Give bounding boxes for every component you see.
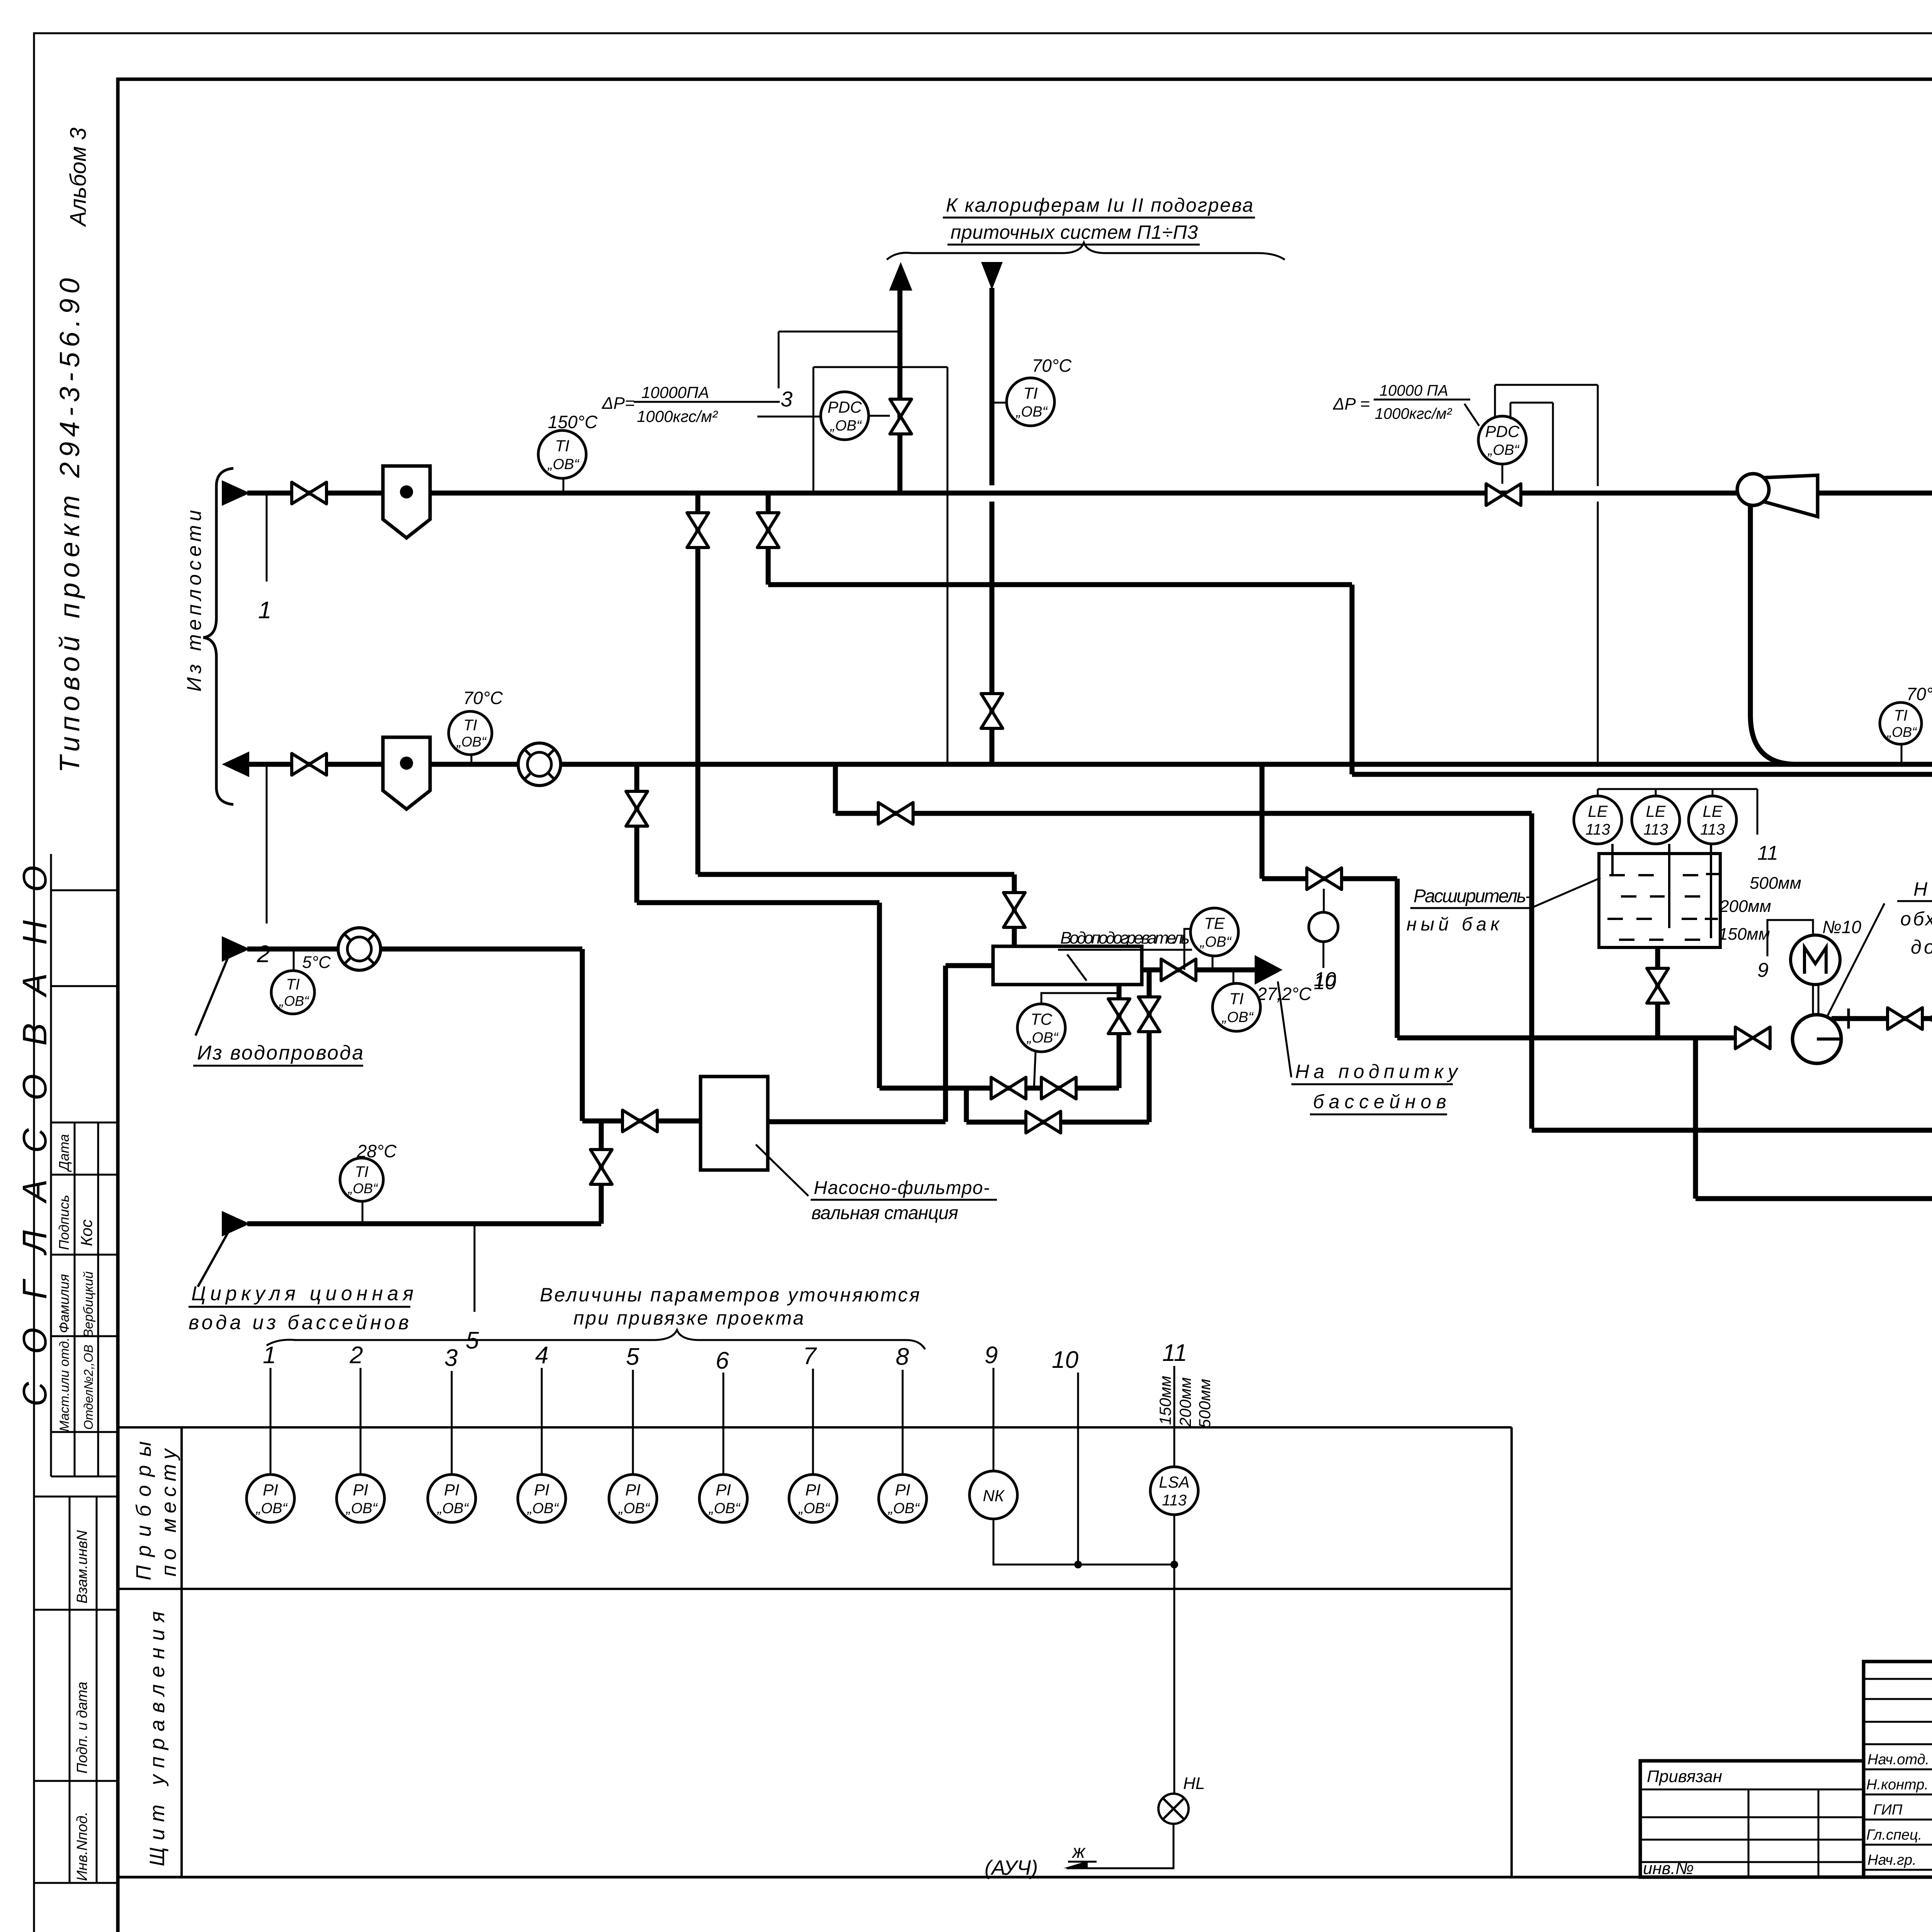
sidebar small rotated texts bbox=[56, 1134, 96, 1432]
instrument TC OB heater1 bbox=[1017, 985, 1120, 1088]
impulse box PDC left bbox=[813, 367, 947, 762]
instrument PI 2 bbox=[337, 1475, 384, 1522]
instrument PI 3 bbox=[428, 1475, 476, 1522]
circulation pipe bbox=[247, 1121, 601, 1224]
return drop A to filter loop bbox=[835, 764, 1532, 1129]
flow meter on return bbox=[518, 743, 561, 786]
svg-text:4: 4 bbox=[535, 1342, 548, 1369]
heater1 bottom check valve riser bbox=[1117, 985, 1122, 1088]
svg-text:Кос: Кос bbox=[77, 1219, 95, 1246]
mud filter on supply bbox=[383, 466, 430, 538]
svg-text:„ОВ“: „ОВ“ bbox=[345, 1500, 378, 1517]
instrument TI OB makeup bbox=[1213, 970, 1260, 1031]
label 27,2C and 10 bbox=[1257, 968, 1336, 1004]
svg-text:ΔP=: ΔP= bbox=[602, 394, 635, 413]
valve on branch riser bbox=[757, 513, 779, 548]
svg-text:Насосно-фильтро-: Насосно-фильтро- bbox=[814, 1178, 990, 1198]
svg-text:2: 2 bbox=[349, 1342, 363, 1369]
svg-text:11: 11 bbox=[1162, 1340, 1187, 1366]
svg-text:„ОВ“: „ОВ“ bbox=[547, 456, 580, 473]
svg-text:LE: LE bbox=[1646, 802, 1666, 820]
rotated level labels at 11 bbox=[1156, 1376, 1214, 1428]
svg-text:при привязке проекта: при привязке проекта bbox=[573, 1307, 804, 1329]
instrument PI 8 bbox=[879, 1475, 927, 1522]
check valve to heater1 outlet bbox=[1138, 997, 1160, 1032]
expansion tank bbox=[1599, 844, 1720, 947]
svg-text:„ОВ“: „ОВ“ bbox=[456, 734, 487, 750]
svg-text:70°C: 70°C bbox=[1032, 355, 1072, 376]
svg-text:„ОВ“: „ОВ“ bbox=[618, 1500, 651, 1517]
pump motor M bbox=[1791, 935, 1840, 1015]
svg-text:Н.контр.: Н.контр. bbox=[1866, 1777, 1929, 1793]
instrument PDC OB right bbox=[1478, 416, 1526, 484]
flow meter on water supply bbox=[338, 928, 381, 970]
filter station box bbox=[701, 1077, 997, 1223]
impulse box PDC right bbox=[1495, 385, 1598, 762]
valve on heater1 riser top bbox=[687, 513, 709, 548]
svg-text:Маст.или отд.: Маст.или отд. bbox=[57, 1337, 72, 1432]
svg-text:бассейнов: бассейнов bbox=[1313, 1091, 1446, 1112]
svg-text:9: 9 bbox=[1757, 959, 1769, 981]
label Циркуляционная вода bbox=[189, 1282, 413, 1334]
svg-text:HL: HL bbox=[1183, 1774, 1205, 1793]
valve on return drain bbox=[626, 791, 648, 826]
svg-text:LE: LE bbox=[1702, 802, 1723, 820]
svg-text:113: 113 bbox=[1643, 821, 1668, 838]
node 11 label with levels bbox=[1718, 842, 1801, 944]
pump circle bbox=[1793, 1015, 1841, 1063]
svg-text:3: 3 bbox=[444, 1345, 457, 1371]
number row 1-11 bbox=[263, 1340, 1187, 1374]
node 2 tick bbox=[257, 767, 270, 968]
svg-text:113: 113 bbox=[1585, 821, 1610, 838]
svg-text:Подп. и дата: Подп. и дата bbox=[74, 1682, 90, 1774]
riser from calorifers (down arrow) crossing supply bbox=[981, 262, 1003, 764]
tank drain valve bbox=[1655, 947, 1660, 1038]
svg-text:200мм: 200мм bbox=[1719, 897, 1771, 916]
pump suction valve bbox=[1735, 1027, 1770, 1049]
makeup outlet arrow bbox=[1255, 956, 1281, 983]
instrument LE 113 no.1 bbox=[1574, 796, 1622, 844]
instrument PI 7 bbox=[789, 1475, 837, 1522]
sidebar label: СОГЛАСОВАНО bbox=[15, 866, 54, 1406]
svg-text:„ОВ“: „ОВ“ bbox=[527, 1500, 560, 1517]
svg-text:РI: РI bbox=[534, 1481, 549, 1499]
svg-text:ТI: ТI bbox=[1229, 990, 1244, 1008]
control valve on supply bbox=[1486, 484, 1521, 505]
svg-text:1000кгс/м²: 1000кгс/м² bbox=[637, 407, 718, 425]
svg-text:„ОВ“: „ОВ“ bbox=[347, 1180, 378, 1196]
svg-text:5: 5 bbox=[626, 1344, 639, 1370]
svg-text:РI: РI bbox=[444, 1481, 459, 1499]
svg-text:11: 11 bbox=[1757, 842, 1778, 864]
makeup valve with actuator 10 bbox=[1307, 868, 1342, 994]
svg-text:1: 1 bbox=[258, 597, 271, 624]
svg-text:7: 7 bbox=[803, 1343, 817, 1369]
instrument PDC OB left bbox=[757, 392, 890, 440]
label Расширительный бак bbox=[1406, 878, 1600, 935]
dP fraction label with 3 bbox=[602, 332, 899, 425]
valve on return riser bbox=[981, 694, 1003, 728]
title block grid bbox=[1864, 1662, 1932, 1877]
node 5 tick bbox=[466, 1226, 479, 1354]
svg-text:NК: NК bbox=[983, 1486, 1005, 1505]
water supply pipe bbox=[247, 949, 701, 1121]
three-way valve pair heater1 bbox=[991, 1077, 1076, 1099]
title block signature rows bbox=[1866, 1752, 1932, 1868]
title block annex labels bbox=[1643, 1767, 1722, 1878]
svg-text:ТI: ТI bbox=[1023, 384, 1038, 402]
water supply inlet arrow bbox=[196, 937, 248, 1036]
circulation inlet arrow bbox=[198, 1212, 248, 1287]
svg-text:70°C: 70°C bbox=[463, 688, 503, 708]
svg-text:ГИП: ГИП bbox=[1873, 1802, 1903, 1818]
svg-text:PDC: PDC bbox=[1485, 422, 1520, 440]
flow arrow into pump line bbox=[1927, 1007, 1932, 1030]
title block main outline bbox=[1640, 1662, 1932, 1877]
label На подпитку бассейнов bbox=[1278, 981, 1459, 1114]
instrument TI 28C bbox=[340, 1141, 397, 1224]
svg-text:„ОВ“: „ОВ“ bbox=[1015, 404, 1048, 420]
svg-text:обходных: обходных bbox=[1900, 908, 1932, 930]
svg-text:5°C: 5°C bbox=[302, 953, 331, 972]
svg-text:„ОВ“: „ОВ“ bbox=[255, 1500, 288, 1517]
svg-text:Инв.Nпод.: Инв.Nпод. bbox=[74, 1811, 90, 1881]
svg-text:ТI: ТI bbox=[355, 1163, 369, 1180]
brace under calorifer label bbox=[887, 243, 1285, 260]
svg-text:РI: РI bbox=[625, 1481, 641, 1499]
riser to calorifers (up arrow) bbox=[889, 262, 912, 493]
svg-text:РI: РI bbox=[353, 1481, 368, 1499]
svg-text:ТI: ТI bbox=[1894, 707, 1908, 724]
svg-text:Вербицкий: Вербицкий bbox=[81, 1271, 96, 1338]
svg-text:1000кгс/м²: 1000кгс/м² bbox=[1375, 405, 1452, 422]
svg-text:LSA: LSA bbox=[1159, 1473, 1189, 1491]
svg-text:2: 2 bbox=[257, 941, 270, 968]
bypass valve heater1 bbox=[1026, 1111, 1061, 1133]
heater1 outlet line bbox=[1142, 968, 1257, 973]
wire to AU4 bbox=[985, 1824, 1173, 1879]
svg-text:инв.№: инв.№ bbox=[1643, 1859, 1694, 1878]
mixing line to heater2 bbox=[1532, 1128, 1932, 1133]
svg-text:„ОВ“: „ОВ“ bbox=[1886, 724, 1917, 740]
band labels rotated bbox=[132, 1441, 180, 1866]
instrument PI 6 bbox=[699, 1475, 747, 1522]
return inlet arrow bbox=[224, 753, 248, 776]
svg-text:150мм: 150мм bbox=[1156, 1376, 1174, 1425]
svg-text:РI: РI bbox=[263, 1481, 278, 1499]
label Водоподогреватель left bbox=[1058, 929, 1192, 981]
svg-text:вальная станция: вальная станция bbox=[811, 1203, 958, 1223]
svg-text:10000 ПА: 10000 ПА bbox=[1379, 382, 1448, 399]
supply inlet arrow bbox=[223, 481, 248, 505]
svg-text:№10: №10 bbox=[1822, 917, 1861, 937]
return pipe 70C bbox=[248, 762, 1932, 767]
svg-text:10: 10 bbox=[1052, 1347, 1078, 1373]
riser to heater1 hot side bbox=[698, 495, 1014, 946]
svg-text:„ОВ“: „ОВ“ bbox=[888, 1500, 920, 1517]
dP fraction label right bbox=[1333, 382, 1479, 426]
instrument PI 1 bbox=[247, 1475, 294, 1522]
svg-text:Водоподогреватель: Водоподогреватель bbox=[1060, 929, 1190, 947]
svg-text:ΔP =: ΔP = bbox=[1333, 395, 1370, 413]
svg-text:Альбом 3: Альбом 3 bbox=[66, 128, 91, 227]
return drain to mixing line bbox=[637, 767, 947, 1088]
svg-text:150мм: 150мм bbox=[1718, 925, 1770, 944]
svg-text:28°C: 28°C bbox=[357, 1141, 397, 1161]
label Насос обходных дорожек bbox=[1827, 878, 1932, 1016]
svg-text:70°C: 70°C bbox=[1906, 684, 1932, 704]
svg-text:Из водопровода: Из водопровода bbox=[197, 1042, 363, 1064]
svg-text:„ОВ“: „ОВ“ bbox=[708, 1500, 741, 1517]
svg-text:На подпитку: На подпитку bbox=[1295, 1061, 1459, 1082]
svg-text:ТI: ТI bbox=[286, 976, 300, 993]
node 9 wire to pump motor bbox=[1757, 920, 1813, 981]
instrument TI 70C return right bbox=[1880, 684, 1932, 764]
svg-text:Привязан: Привязан bbox=[1647, 1767, 1722, 1786]
svg-text:РI: РI bbox=[805, 1481, 821, 1499]
svg-text:Нач.отд.: Нач.отд. bbox=[1867, 1752, 1929, 1768]
signal lamp HL bbox=[1158, 1774, 1205, 1824]
svg-text:ТI: ТI bbox=[463, 717, 477, 734]
svg-text:PDC: PDC bbox=[828, 398, 862, 416]
svg-text:150°C: 150°C bbox=[548, 412, 598, 432]
valve on calorifer riser bbox=[890, 399, 912, 434]
instrument band frame bbox=[118, 1427, 1932, 1877]
svg-text:„ОВ“: „ОВ“ bbox=[830, 418, 862, 434]
sidebar lower boxes bbox=[34, 1497, 118, 1883]
sidebar label: Типовой проект 294-3-56.90 bbox=[54, 278, 85, 773]
svg-text:„ОВ“: „ОВ“ bbox=[279, 993, 310, 1009]
svg-text:Подпись: Подпись bbox=[56, 1195, 72, 1250]
valve on supply inlet bbox=[292, 482, 327, 504]
svg-text:1: 1 bbox=[263, 1342, 276, 1369]
valve on return outlet bbox=[292, 753, 327, 775]
valve before filter station bbox=[622, 1110, 657, 1132]
svg-text:Взам.инвN: Взам.инвN bbox=[74, 1530, 90, 1604]
svg-text:дорожек: дорожек bbox=[1911, 936, 1932, 958]
elevator bbox=[1737, 474, 1818, 764]
svg-text:113: 113 bbox=[1162, 1492, 1187, 1509]
svg-text:приточных систем П1÷П3: приточных систем П1÷П3 bbox=[951, 221, 1198, 243]
valve on heater1 outlet bbox=[1161, 959, 1196, 981]
label No10 bbox=[1822, 917, 1861, 937]
svg-text:ж: ж bbox=[1071, 1842, 1086, 1862]
instrument TI 5C bbox=[271, 949, 331, 1014]
instrument TI 70C on riser bbox=[994, 355, 1072, 426]
svg-text:Дата: Дата bbox=[56, 1134, 72, 1172]
link main return riser bbox=[1693, 1038, 1698, 1199]
heater1 vessel bbox=[993, 946, 1142, 985]
instrument NK bbox=[969, 1471, 1017, 1519]
svg-text:К калориферам Iи II подогрева: К калориферам Iи II подогрева bbox=[946, 194, 1253, 216]
return drop B to pump suction bbox=[1262, 764, 1736, 1038]
riser supply branch to right system bbox=[768, 495, 1932, 774]
sidebar label: Альбом 3 bbox=[66, 128, 91, 227]
brace Из теплосети bbox=[183, 468, 233, 804]
svg-text:„ОВ“: „ОВ“ bbox=[1221, 1009, 1254, 1026]
svg-text:200мм: 200мм bbox=[1176, 1377, 1194, 1427]
svg-text:10: 10 bbox=[1314, 968, 1336, 991]
instrument PI 5 bbox=[609, 1475, 657, 1522]
svg-text:6: 6 bbox=[716, 1347, 729, 1374]
svg-text:„ОВ“: „ОВ“ bbox=[798, 1500, 831, 1517]
heater1 bypass loop bbox=[966, 970, 1149, 1122]
svg-text:„ОВ“: „ОВ“ bbox=[1026, 1030, 1059, 1046]
svg-text:500мм: 500мм bbox=[1750, 874, 1801, 893]
svg-text:113: 113 bbox=[1700, 821, 1725, 838]
valve on drop A bbox=[878, 803, 913, 824]
svg-text:Гл.спец.: Гл.спец. bbox=[1866, 1827, 1922, 1843]
valve on heater1 feed bbox=[1003, 893, 1025, 927]
svg-text:по месту: по месту bbox=[157, 1448, 180, 1577]
mud filter on return bbox=[383, 737, 430, 809]
instrument TI 70C on return bbox=[449, 688, 503, 764]
valve on circulation riser bbox=[590, 1150, 612, 1184]
instrument TE OB heater1 bbox=[1184, 908, 1238, 970]
numbers brace bbox=[267, 1330, 925, 1349]
svg-text:ный бак: ный бак bbox=[1406, 914, 1500, 935]
expansion tank LE instruments bbox=[1598, 789, 1757, 835]
label Величины параметров bbox=[540, 1284, 920, 1329]
wires from numbers to local instruments bbox=[270, 1366, 1174, 1565]
svg-text:Типовой проект 294-3-56.90: Типовой проект 294-3-56.90 bbox=[54, 278, 85, 773]
instrument LSA 113 bbox=[1150, 1467, 1198, 1515]
label К калориферам bbox=[943, 194, 1255, 245]
valve on pump discharge bbox=[1888, 1008, 1922, 1029]
svg-text:9: 9 bbox=[985, 1342, 998, 1369]
svg-text:ТI: ТI bbox=[555, 437, 570, 455]
svg-text:8: 8 bbox=[896, 1344, 909, 1370]
svg-text:ТС: ТС bbox=[1031, 1010, 1053, 1028]
svg-text:вода из бассейнов: вода из бассейнов bbox=[189, 1311, 409, 1334]
svg-text:500мм: 500мм bbox=[1196, 1379, 1214, 1428]
instrument TI 150C bbox=[538, 412, 598, 493]
heater1 piping: filter outlet and mixed line bbox=[768, 966, 1119, 1122]
supply pipe 150C bbox=[247, 491, 1932, 496]
svg-text:3: 3 bbox=[781, 387, 793, 411]
title block annex rows bbox=[1640, 1789, 1864, 1877]
svg-text:„ОВ“: „ОВ“ bbox=[1487, 442, 1520, 458]
svg-text:LE: LE bbox=[1588, 802, 1608, 820]
svg-text:Расширитель-: Расширитель- bbox=[1413, 886, 1531, 906]
instrument LE 113 no.3 bbox=[1689, 796, 1736, 844]
svg-text:РI: РI bbox=[716, 1481, 731, 1499]
svg-text:Из теплосети: Из теплосети bbox=[183, 510, 206, 692]
bypass paths return pipe bbox=[1696, 1196, 1932, 1201]
svg-text:Фамилия: Фамилия bbox=[56, 1274, 72, 1333]
svg-text:27,2°C: 27,2°C bbox=[1257, 984, 1312, 1004]
sidebar revision table lines bbox=[51, 854, 118, 1476]
instrument LE 113 no.2 bbox=[1632, 796, 1680, 844]
pump discharge line to heater2 bbox=[1832, 1009, 1932, 1029]
svg-text:РI: РI bbox=[895, 1481, 910, 1499]
svg-text:ТЕ: ТЕ bbox=[1204, 914, 1225, 932]
svg-text:10000ПА: 10000ПА bbox=[641, 383, 709, 401]
svg-text:Отдел№2,,ОВ: Отдел№2,,ОВ bbox=[82, 1345, 95, 1430]
svg-text:„ОВ“: „ОВ“ bbox=[1199, 934, 1232, 950]
svg-text:„ОВ“: „ОВ“ bbox=[437, 1500, 469, 1517]
node 1 tick bbox=[258, 495, 271, 624]
label Из водопровода bbox=[193, 1042, 363, 1066]
svg-text:(АУЧ): (АУЧ) bbox=[985, 1856, 1038, 1879]
instrument PI 4 bbox=[518, 1475, 566, 1522]
svg-text:Нач.гр.: Нач.гр. bbox=[1867, 1852, 1917, 1868]
signal wire NK-LSA junction bbox=[993, 1515, 1178, 1794]
